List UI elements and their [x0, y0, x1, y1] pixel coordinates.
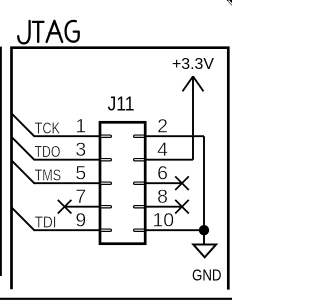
- svg-text:8: 8: [157, 186, 168, 208]
- svg-text:1: 1: [75, 115, 86, 137]
- svg-text:GND: GND: [192, 267, 222, 284]
- svg-text:7: 7: [75, 186, 86, 208]
- svg-text:5: 5: [75, 162, 86, 184]
- svg-text:10: 10: [152, 209, 174, 231]
- svg-text:6: 6: [157, 162, 168, 184]
- svg-text:9: 9: [75, 209, 86, 231]
- svg-text:4: 4: [157, 139, 168, 161]
- svg-text:TMS: TMS: [35, 168, 62, 185]
- svg-text:TDO: TDO: [35, 144, 61, 161]
- svg-text:TCK: TCK: [35, 121, 61, 138]
- svg-text:J11: J11: [108, 94, 135, 116]
- svg-text:2: 2: [157, 115, 168, 137]
- svg-text:+3.3V: +3.3V: [172, 56, 214, 73]
- svg-text:TDI: TDI: [35, 215, 57, 232]
- svg-text:3: 3: [75, 139, 86, 161]
